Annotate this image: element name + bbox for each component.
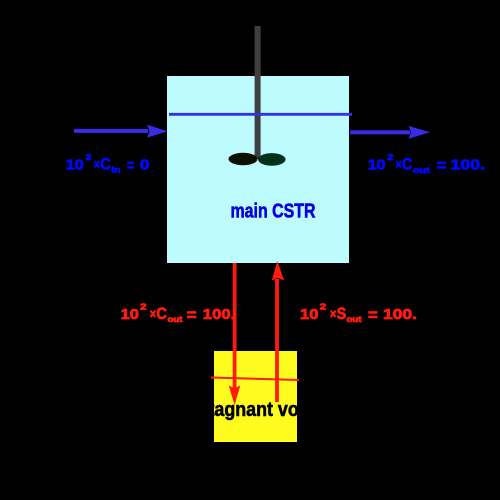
svg-text:C: C [156,304,167,323]
svg-text:10: 10 [368,157,386,174]
svg-text:100.: 100. [383,306,417,323]
exchange arrow up (red) [272,261,284,402]
inlet arrow (left, blue) [74,125,168,138]
svg-text:=: = [368,306,378,325]
svg-text:10: 10 [121,306,139,323]
svg-text:S: S [337,304,347,323]
label inlet concentration 10^2 x C_in = 0 [66,153,150,175]
label stagnant outlet 10^2 x S_out = 100. (red) [300,303,417,325]
svg-text:×: × [330,306,336,322]
svg-text:×: × [94,156,100,172]
svg-text:out: out [168,315,183,324]
svg-text:10: 10 [300,306,319,323]
stirrer shaft [255,26,261,159]
svg-text:out: out [413,166,430,175]
label outlet concentration 10^2 x C_out = 100. [368,153,485,175]
svg-text:=: = [437,156,447,175]
svg-text:×: × [396,156,402,172]
svg-text:stagnant volume: stagnant volume [199,399,341,421]
liquid level line [169,113,352,116]
svg-text:C: C [100,155,110,174]
svg-text:0: 0 [140,157,150,174]
impeller right blade [258,153,286,166]
outlet arrow (right, blue) [350,126,430,139]
svg-text:2: 2 [86,153,93,162]
svg-text:2: 2 [320,303,327,312]
svg-text:2: 2 [387,153,394,162]
exchange arrow down (red) [229,263,241,405]
impeller left blade [229,153,258,165]
svg-text:=: = [127,156,134,175]
svg-text:main CSTR: main CSTR [231,200,316,223]
label exchange concentration 10^2 x C_out = 100. (red) [121,303,236,325]
stagnant volume level line (red) [211,378,299,381]
svg-text:2: 2 [140,303,147,312]
svg-text:=: = [187,306,197,325]
svg-text:out: out [347,315,362,324]
svg-text:in: in [111,166,120,175]
stagnant volume box [214,351,297,442]
svg-text:100.: 100. [451,157,486,174]
main CSTR tank body [167,76,349,263]
svg-text:100.: 100. [203,306,236,323]
svg-text:10: 10 [66,157,84,174]
svg-text:×: × [150,306,156,322]
svg-text:C: C [402,155,412,174]
